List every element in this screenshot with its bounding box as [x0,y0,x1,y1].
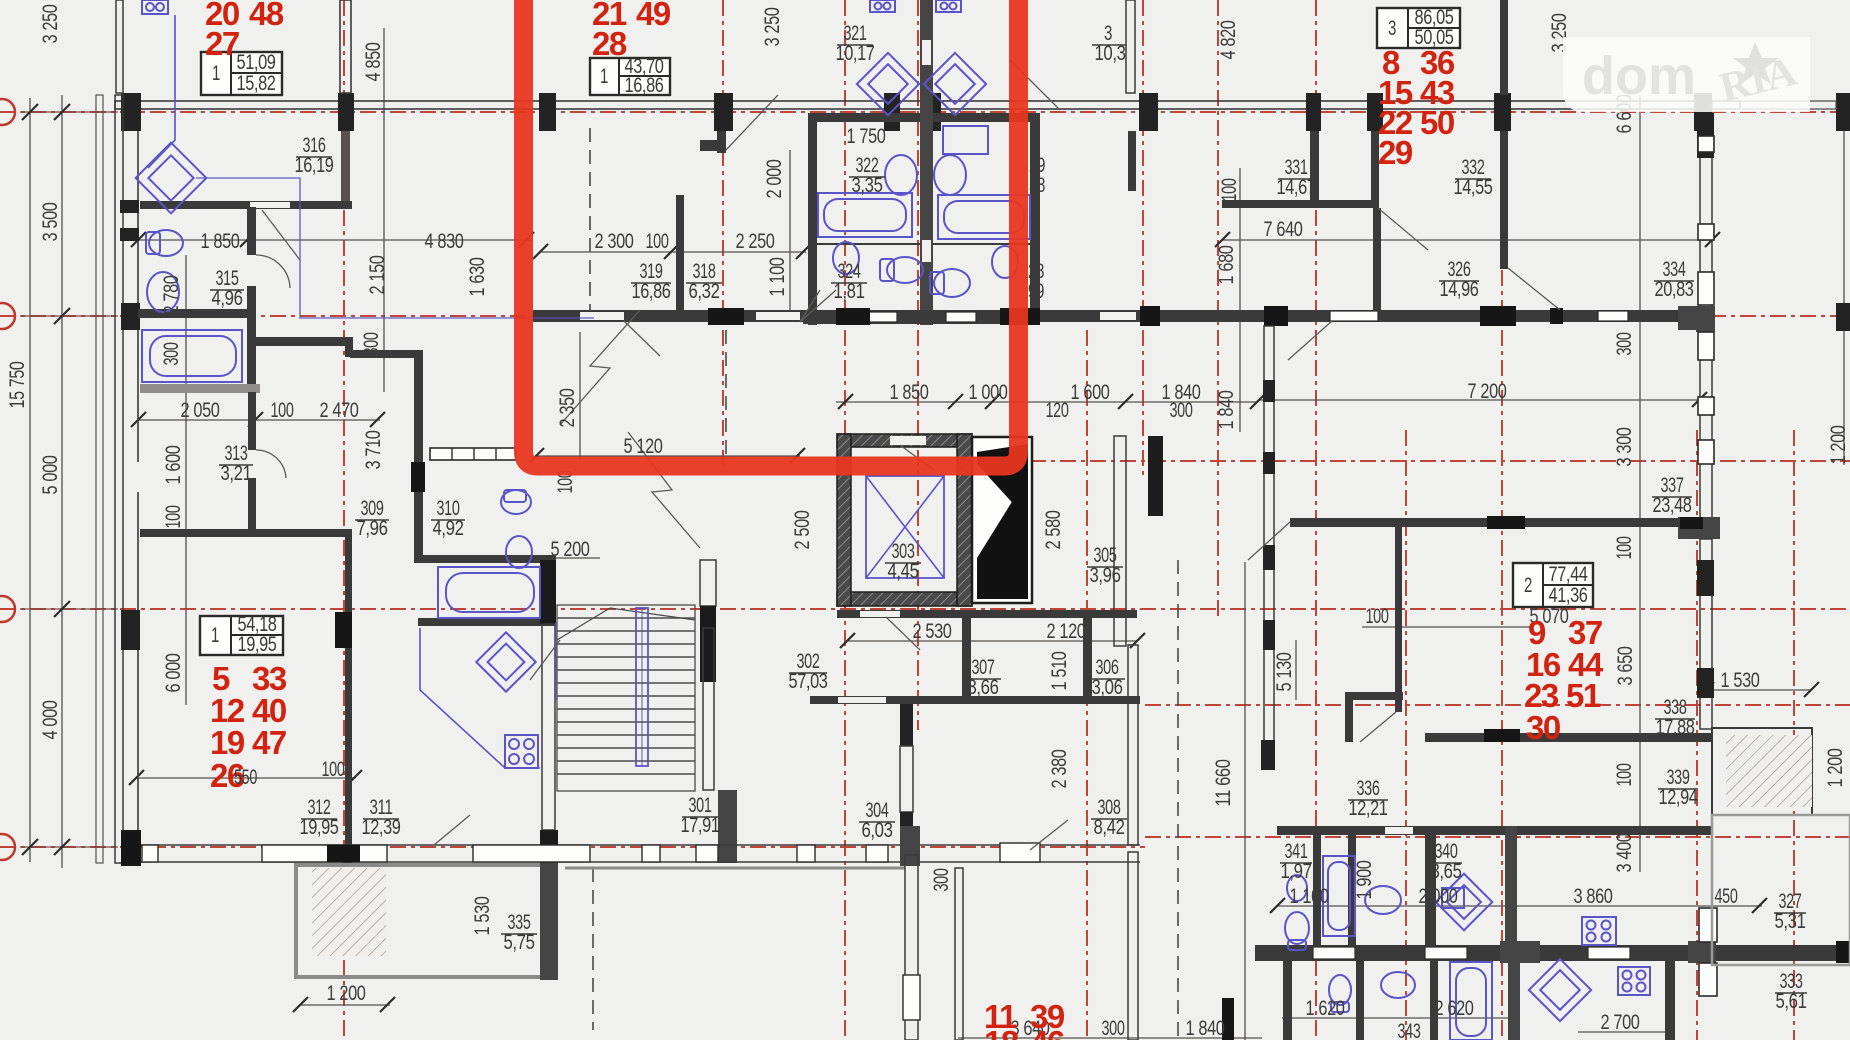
watermark panel [1563,37,1810,112]
pier top J [1494,93,1511,131]
bathtub 341 vertical [1323,856,1355,936]
grid bubble row 4 [0,834,15,860]
svg-text:4 850: 4 850 [362,43,385,82]
room label 333 [1775,970,1807,1013]
room label 307 [965,656,1001,699]
left facade outer finish [96,95,103,863]
svg-text:51: 51 [1566,677,1601,714]
grid axis col x1316 [1315,0,1317,1040]
room label 302 [789,650,828,693]
room label 338 [1655,696,1695,739]
grid bubble row 1 [0,99,15,125]
svg-text:6,32: 6,32 [689,280,720,303]
wall 312/311 vertical [345,537,352,863]
window rf b [1698,224,1714,240]
room label 331 [1277,156,1316,199]
svg-text:3 400: 3 400 [1613,834,1636,873]
apt numbers 5 33 12 40 19 47 26 [210,660,287,794]
svg-text:12,94: 12,94 [1659,786,1699,809]
svg-text:16,19: 16,19 [295,154,334,177]
svg-text:1 850: 1 850 [890,381,929,404]
room label 324 [831,260,867,303]
shower low [1529,959,1591,1021]
svg-text:49: 49 [636,0,671,32]
swing zigzag lines (doors) [262,60,1060,680]
washing machine bath L [870,0,895,12]
pier top A [121,93,141,131]
pier rf1 [1697,113,1714,158]
room label 334 [1654,258,1694,301]
pier rf5 corner [1678,517,1720,539]
grid axis row right mid [1030,460,1850,462]
toilet 315 [146,230,183,256]
sink 315 [147,272,179,312]
svg-text:1,81: 1,81 [834,280,865,303]
svg-text:15 750: 15 750 [6,362,29,409]
room label 326 [1439,258,1479,301]
svg-text:1 530: 1 530 [1721,669,1760,692]
bath block mid partition [814,243,920,245]
room label 329 part [1029,154,1045,197]
svg-text:550: 550 [234,766,257,789]
window rf f [1698,440,1714,464]
grid axis col x1406 [1405,430,1407,1040]
pier top F [925,93,941,131]
bath313 hatch ledge [140,384,260,393]
svg-text:300: 300 [1102,1017,1125,1040]
svg-text:1 620: 1 620 [1306,997,1345,1020]
top facade piers [121,93,1850,331]
bath310 top wall [414,555,556,563]
svg-text:17,91: 17,91 [681,814,720,837]
svg-text:3: 3 [1388,17,1396,40]
svg-text:46: 46 [1030,1024,1065,1040]
room label 320 [1092,22,1126,65]
toilet bathL low [880,257,923,283]
svg-text:50: 50 [1420,104,1454,141]
shower 316 [136,143,207,214]
dim 2530/2120 y641 [848,640,1138,642]
svg-text:2 120: 2 120 [1047,620,1086,643]
svg-text:3 860: 3 860 [1574,885,1613,908]
svg-text:300: 300 [160,343,183,366]
room label 311 [362,796,401,839]
room label 339 [1658,766,1698,809]
svg-text:4 830: 4 830 [425,230,464,253]
svg-text:1: 1 [212,62,220,85]
grid bubble row 2 [0,303,15,329]
room label 337 [1652,474,1692,517]
svg-text:3,66: 3,66 [968,676,999,699]
info box apt21 [590,55,670,97]
dim line 2300/100/2250 row y252 [540,251,806,253]
wall x1375 vertical [1371,131,1379,208]
svg-text:12,21: 12,21 [1349,797,1388,820]
apt numbers 8 36 15 43 22 50 29 [1378,44,1455,171]
svg-text:120: 120 [1046,399,1069,422]
svg-text:7 640: 7 640 [1264,218,1303,241]
room332 right wall [1500,0,1508,95]
info box apt8 [1377,6,1460,49]
svg-text:1 680: 1 680 [1215,246,1238,285]
svg-text:7,96: 7,96 [357,517,388,540]
grid axis col x918 [917,0,919,730]
stair east wall [700,560,716,606]
grid axis col x1502 [1501,0,1503,1040]
svg-text:23,48: 23,48 [1653,494,1692,517]
pier top E [884,93,900,131]
svg-text:2 380: 2 380 [1048,750,1071,789]
svg-text:450: 450 [1715,885,1738,908]
room label 341 [1280,840,1312,883]
room label 327 [1774,890,1806,933]
svg-text:4,92: 4,92 [433,517,464,540]
svg-text:3 710: 3 710 [362,431,385,470]
svg-text:1 840: 1 840 [1186,1017,1225,1040]
pedestal sink bathL low [833,242,859,274]
pier top I [1367,93,1383,131]
dim row bottom right y906 [1277,905,1762,907]
corridor spine pier [411,462,425,492]
balcony left low [296,865,556,977]
left facade window line [115,95,123,863]
grid axis col x723 [722,0,724,465]
svg-text:2 350: 2 350 [556,389,579,428]
svg-text:1 100: 1 100 [1290,885,1329,908]
room label 319 [631,260,671,303]
bottom right: sink small 341 [1287,875,1307,901]
grid axis row 2 [0,315,1850,317]
wall 315 vertical [247,207,256,255]
grid axis col x1218 [1217,0,1219,620]
apt numbers 9 37 16 44 23 51 30 [1524,614,1604,746]
svg-text:5,61: 5,61 [1776,990,1807,1013]
vertical dim x1240 [1239,168,1241,432]
svg-text:4 820: 4 820 [1217,21,1240,60]
right facade [1700,131,1712,530]
rooms319/318 partition [676,195,684,313]
wall x1135 vertical top [1126,0,1135,93]
svg-text:1 100: 1 100 [766,258,789,297]
svg-text:2 050: 2 050 [181,399,220,422]
grid axis col x845 [844,0,846,1040]
svg-text:2 300: 2 300 [595,230,634,253]
bath block right wall [1030,113,1040,325]
pier top D [714,93,733,131]
bath block left wall [808,113,817,325]
svg-text:3,21: 3,21 [221,462,252,485]
bathtub 315 [142,330,242,382]
elevator shaft walls [837,434,972,606]
sink 340 oval [1365,886,1401,914]
dim line 5120 y456 [536,455,800,457]
terrace borders [565,867,905,870]
svg-text:6,03: 6,03 [862,819,893,842]
apt2 top wall [1290,518,1702,527]
apt numbers 20 48 27 [205,0,284,62]
room336 step wall [1345,692,1403,700]
svg-text:300: 300 [1613,333,1636,356]
room331/332 bottom wall [1222,200,1375,208]
svg-text:1 600: 1 600 [1071,381,1110,404]
pier top K [1694,93,1712,131]
svg-text:3 250: 3 250 [761,8,784,47]
dim 3640/300/1840 y1038 [958,1037,1262,1039]
svg-text:1: 1 [600,65,608,88]
svg-text:4,96: 4,96 [212,287,243,310]
corridor spine vertical [414,350,423,562]
svg-text:16,86: 16,86 [632,280,671,303]
svg-text:1 200: 1 200 [327,982,366,1005]
pier left c [120,228,139,241]
svg-text:5 200: 5 200 [551,538,590,561]
sink bathR low [992,246,1018,278]
room label 332 [1454,156,1493,199]
apt2 bottom wall [1425,733,1712,742]
svg-text:3,35: 3,35 [852,174,883,197]
svg-text:300: 300 [360,333,383,356]
svg-text:1 000: 1 000 [969,381,1008,404]
svg-text:77,44: 77,44 [1549,563,1589,586]
dim row top right y402 1850/1000/1600/1840 [836,401,1258,403]
pier bottom notch [1222,998,1234,1040]
svg-text:3 250: 3 250 [39,5,62,44]
svg-text:2 780: 2 780 [160,276,183,315]
wall x1375 mid [1373,208,1381,310]
shaft2 [972,437,1032,603]
dim 7640 y240 [1222,239,1712,241]
elevator X [866,476,944,578]
svg-text:1,97: 1,97 [1281,860,1312,883]
info box apt9 [1513,563,1593,607]
slash ticks scattered [129,232,1819,1012]
shower diamond bathL [857,53,919,115]
grid axis col x1087 [1086,330,1088,1040]
west wall right wing [1264,326,1274,742]
svg-text:2 000: 2 000 [1419,885,1458,908]
bottom apt walls [955,868,963,1040]
svg-text:28: 28 [592,25,627,62]
grid axis row 1 [0,111,1850,113]
svg-text:14,67: 14,67 [1277,176,1316,199]
toilet bathR low [930,269,970,297]
svg-text:5 120: 5 120 [624,435,663,458]
grid wall bath block [803,310,1040,324]
watermark star [1733,42,1779,84]
left dim chain extension whiskers [20,111,118,113]
pier top G [1139,93,1158,131]
dim 550/100 y778 [136,777,355,779]
svg-text:4,45: 4,45 [888,560,919,583]
room label 310 [431,497,465,540]
door arcs [256,208,1560,850]
washing machine top left [142,0,168,14]
svg-text:2 470: 2 470 [320,399,359,422]
corridor stepped wall [255,337,350,346]
room304 wall [900,704,913,746]
room label 328 part [1028,260,1044,303]
room label 336 [1348,777,1388,820]
svg-text:100: 100 [1613,764,1636,787]
toilet 341 [1285,912,1309,950]
bath 302 tub (apt311) supply [555,622,557,700]
room label 318 [686,260,722,303]
brb verticals [1313,826,1321,946]
top facade window double line [115,101,1740,109]
left facade inner line [137,131,139,462]
shower 340 [1436,874,1493,931]
svg-text:3,96: 3,96 [1090,564,1121,587]
right facade lower [1700,539,1712,729]
svg-text:2 620: 2 620 [1435,997,1474,1020]
room313 walls [248,392,256,450]
grid axis row right 837 [1145,836,1850,838]
pier top H [1306,93,1321,131]
toilet 310 [501,490,531,514]
svg-text:2 700: 2 700 [1601,1011,1640,1034]
grid axis col x1143 [1142,0,1144,480]
dim 7200 y400 [1258,399,1700,401]
svg-text:1 200: 1 200 [1824,749,1847,788]
dim 1530 y690 [1706,689,1812,691]
tick marks left chain [22,104,70,855]
room label 304 [859,799,895,842]
svg-text:3,65: 3,65 [1431,860,1462,883]
dim line 1850/4830 row y240 [138,239,533,241]
bath block top wall [808,113,1040,122]
pier left e [121,610,140,650]
svg-text:343: 343 [1398,1020,1421,1040]
room label 315 [210,267,244,310]
bathtub low vertical [1450,962,1492,1040]
svg-text:17,88: 17,88 [1656,716,1695,739]
pier left f [121,836,140,866]
svg-text:100: 100 [322,758,345,781]
stair west wall [540,560,556,624]
bathtub bathL [818,193,912,237]
svg-text:dom: dom [1582,46,1696,106]
info box apt5 [200,613,283,656]
svg-text:2 580: 2 580 [1042,511,1065,550]
room label 306 [1089,656,1125,699]
svg-text:19,95: 19,95 [300,816,339,839]
red highlight rectangle [524,0,1019,466]
svg-text:6 000: 6 000 [162,654,185,693]
kitchen line 311 [420,628,540,768]
bottom wall row [140,844,1140,846]
grid axis col x1794 [1793,430,1795,1040]
dim texts horizontal [181,125,1760,1040]
apt numbers 11 39 18 46 [984,998,1065,1040]
svg-text:300: 300 [930,869,953,892]
svg-text:51,09: 51,09 [237,51,276,74]
dim 2700 y1032 [1578,1031,1665,1033]
brb mid wall [1255,945,1850,961]
vertical dim 11660 x1245 [1244,562,1246,1040]
room label 335 [501,911,537,954]
sink oval bathR [934,155,966,195]
stove low [1618,967,1650,995]
room label 309 [355,497,389,540]
room331 partition vertical [1310,131,1319,203]
vertical dim x1296 5130 [1295,640,1297,700]
svg-text:100: 100 [1613,537,1636,560]
sink low oval [1381,972,1415,998]
svg-text:100: 100 [162,506,185,529]
svg-text:10,3: 10,3 [1095,42,1126,65]
bath315 top wall [140,201,352,209]
grid wall right wing [1040,310,1712,322]
blue supply line 316 [148,15,175,168]
cabinet bathR [943,126,988,154]
svg-text:41,36: 41,36 [1549,584,1588,607]
svg-text:1 750: 1 750 [847,125,886,148]
window rf e [1698,397,1714,415]
pier right edge row2 [1836,303,1850,331]
svg-text:5 130: 5 130 [1273,653,1296,692]
svg-text:99: 99 [1028,280,1044,303]
vertical dim x790 bath [789,150,791,312]
room label 321 [836,22,875,65]
pier top C [539,93,556,131]
left wall top segment [116,0,123,93]
svg-text:300: 300 [1170,399,1193,422]
dim 5070/100 y627 [1362,626,1530,628]
svg-text:1 200: 1 200 [1827,426,1850,465]
shower diamond bathR [924,53,986,115]
info box apt20 [201,51,282,95]
svg-text:30: 30 [1526,709,1560,746]
grid axis col A x344 [343,0,345,1040]
pier top B [338,93,354,131]
svg-text:2 150: 2 150 [366,256,389,295]
svg-text:20,83: 20,83 [1655,278,1694,301]
svg-text:10,17: 10,17 [836,42,875,65]
pier left d [121,303,140,330]
sink 310 [506,536,532,568]
window rf d [1698,332,1714,360]
grid axis row right 705 [1145,704,1850,706]
svg-text:2 500: 2 500 [791,511,814,550]
svg-text:19,95: 19,95 [238,633,277,656]
svg-text:100: 100 [1366,605,1389,628]
room label 322 [849,154,885,197]
black dashed line x593 bottom [592,868,594,1030]
svg-text:4 000: 4 000 [39,701,62,740]
room label 313 [219,442,253,485]
svg-text:5,75: 5,75 [504,931,535,954]
washing machine bath R [936,0,961,12]
svg-text:1 630: 1 630 [466,258,489,297]
svg-text:5,31: 5,31 [1775,910,1806,933]
brb verticals low [1356,961,1364,1040]
window rf c [1698,272,1714,305]
room label 316 [295,134,334,177]
stove 338 [1582,917,1616,945]
stairs [557,605,695,791]
small box PM [1442,888,1464,908]
svg-text:11 660: 11 660 [1212,760,1235,807]
dim rows bottom bath y1018 [1282,1017,1512,1019]
balcony right hatch [1712,728,1812,815]
svg-text:14,96: 14,96 [1440,278,1479,301]
pier rf3 [1696,306,1715,332]
black dashed line x593 top [589,128,591,310]
left dim chain line [61,95,63,868]
svg-text:29: 29 [1378,134,1413,171]
svg-text:27: 27 [205,25,239,62]
svg-text:2: 2 [1524,574,1532,597]
